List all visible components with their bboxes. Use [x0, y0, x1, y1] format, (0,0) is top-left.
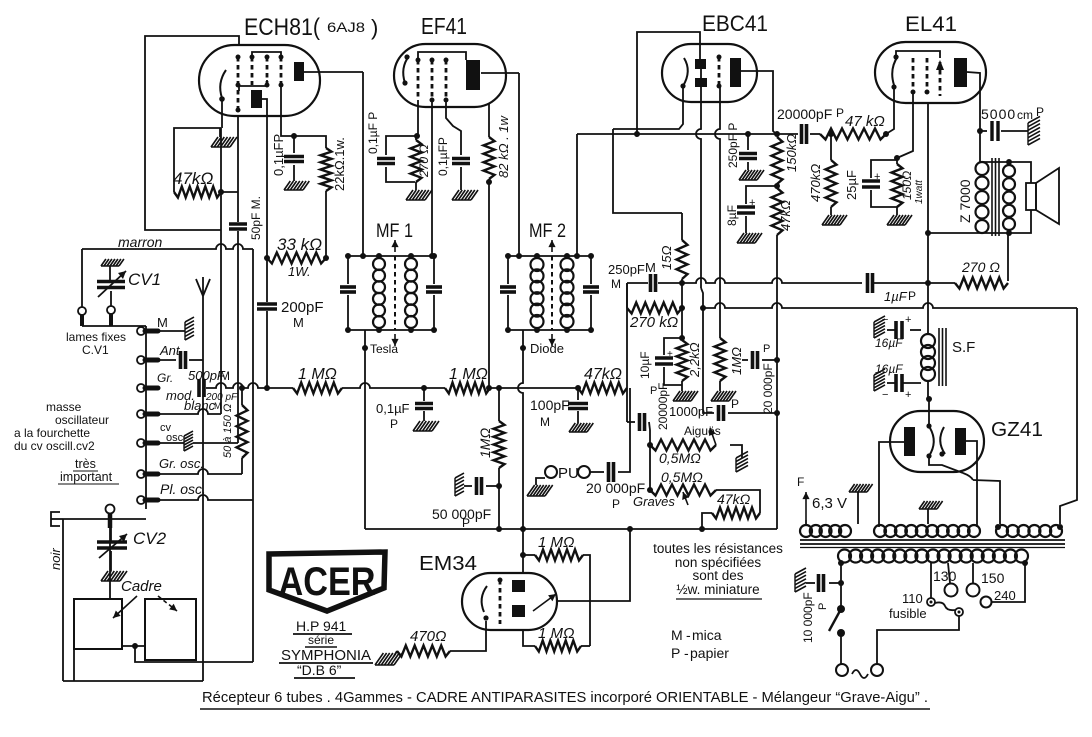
note F 6,3V: [797, 475, 847, 520]
resistor 50a150 ohm: [237, 385, 248, 474]
resistor 47k detector: [578, 383, 627, 394]
wire fusible link: [935, 602, 955, 610]
note 240 label: [994, 588, 1016, 603]
svg-text:M: M: [157, 315, 168, 330]
svg-text:F: F: [797, 475, 804, 489]
wire EF41 pin1: [414, 100, 420, 139]
wire rail B1 left: [627, 278, 862, 387]
svg-text:150kΩ: 150kΩ: [784, 134, 799, 172]
wire line 133: [577, 131, 798, 137]
tube EBC41 label: [702, 11, 768, 36]
capacitor 100pF M: [568, 385, 588, 423]
resistor 150k label: [784, 134, 799, 172]
svg-text:0,5MΩ: 0,5MΩ: [659, 450, 701, 466]
svg-text:oscillateur: oscillateur: [55, 413, 109, 427]
wire noir bottom: [63, 680, 203, 682]
note fusible label: [889, 606, 927, 621]
svg-text:série: série: [308, 633, 334, 647]
tube EM34 targets: [512, 580, 525, 617]
capacitor 250pFM: [651, 274, 656, 292]
ground OPU: [527, 478, 553, 496]
svg-text:100pF: 100pF: [530, 397, 570, 413]
capacitor 0,1uF P bus: [415, 388, 433, 421]
speaker: [1026, 168, 1059, 224]
wire bottom bus: [365, 526, 777, 532]
terminal post CV1 right: [107, 291, 115, 326]
svg-text:Gr.: Gr.: [157, 371, 173, 385]
svg-text:130: 130: [933, 568, 957, 584]
resistor 47k grid label: [845, 113, 885, 130]
capacitor 250pF P: [739, 131, 757, 170]
wire post to cadre: [109, 528, 111, 599]
wire lames fixes: [82, 325, 146, 327]
tube EL41 label: [905, 13, 957, 36]
capacitor Ant: [181, 351, 186, 369]
svg-text:M: M: [540, 415, 550, 429]
resistor 0,5M label 1: [659, 450, 701, 466]
tube GZ41 envelope: [890, 411, 984, 472]
resistor 2,2k label: [687, 342, 702, 378]
capacitor 25uF label: [844, 170, 859, 200]
svg-text:Récepteur 6 tubes . 4Gammes -: Récepteur 6 tubes . 4Gammes - CADRE ANTI…: [202, 690, 928, 706]
wire Diode label: [530, 341, 564, 356]
wire cathode bracket: [174, 128, 221, 192]
wire marron label: [118, 234, 163, 250]
capacitor 20000pF left label: [650, 383, 670, 430]
resistor 1M second: [445, 383, 492, 394]
terminal M: [137, 327, 158, 335]
svg-text:M: M: [611, 277, 621, 291]
transformer MF2 frame: [508, 256, 591, 330]
wire tap 150: [972, 563, 974, 583]
capacitor CV2: [97, 528, 127, 558]
capacitor MF2 right: [583, 287, 599, 292]
resistor 2,2k: [677, 340, 688, 381]
svg-text:1MΩ: 1MΩ: [729, 347, 744, 375]
terminal Ant: [137, 356, 158, 364]
svg-text:0,1µFP: 0,1µFP: [271, 134, 286, 176]
svg-text:1 MΩ: 1 MΩ: [449, 366, 488, 383]
svg-text:250pF: 250pF: [608, 262, 645, 277]
tube EM34 label: [419, 553, 477, 575]
capacitor 1uFP: [868, 273, 873, 293]
resistor 47k grid EL41: [810, 129, 886, 140]
note masse oscillateur: [14, 400, 109, 453]
ground 100pF M: [569, 423, 593, 432]
svg-text:Ant: Ant: [159, 343, 181, 358]
capacitor 1000pF: [703, 308, 777, 421]
note tres important: [58, 457, 119, 484]
resistor 33kOhm: [264, 253, 329, 264]
wire MF1 corners: [345, 253, 437, 333]
tube ECH81 lower grid: [236, 90, 241, 113]
wire v1: [220, 128, 222, 414]
capacitor 20000pF left: [627, 387, 650, 445]
resistor 150k vertical: [772, 137, 783, 184]
terminal Gr osc label: [159, 456, 204, 471]
capacitor 50000pF: [455, 473, 499, 496]
svg-text:8µF: 8µF: [725, 205, 739, 226]
resistor 470 ohm: [375, 621, 486, 665]
capacitor 500pF label: [188, 368, 230, 383]
resistor 470 ohm label: [410, 628, 446, 645]
resistor 150 ohm: [892, 158, 903, 215]
svg-text:0,1µFP: 0,1µFP: [436, 137, 450, 176]
svg-text:masse: masse: [46, 400, 82, 414]
transformer Z7000 core: [992, 158, 999, 236]
svg-text:P: P: [763, 343, 770, 355]
wire GZ41 plate2 out: [965, 441, 977, 527]
wire M line: [158, 330, 185, 332]
ground 5000cm hatch: [1028, 116, 1040, 145]
resistor 47kOhm grid: [174, 187, 221, 198]
svg-text:lames fixes: lames fixes: [66, 330, 126, 344]
capacitor 100pF M label: [530, 397, 570, 429]
svg-text:6AJ8: 6AJ8: [327, 19, 365, 35]
svg-text:0,1µF: 0,1µF: [376, 401, 410, 416]
resistor 0,5M label 2: [661, 469, 703, 485]
svg-text:+: +: [905, 314, 911, 326]
capacitor 16uF top: [882, 314, 921, 339]
wire Tesla label: [370, 342, 398, 356]
ground 16uF top: [874, 316, 885, 338]
wire 240 to HV right: [991, 563, 1025, 602]
svg-text:GZ41: GZ41: [991, 419, 1043, 441]
svg-text:P: P: [731, 397, 739, 411]
resistor 82k label: [496, 114, 511, 178]
capacitor 200pF M label: [281, 299, 324, 330]
wire 150k47k chain down: [774, 235, 780, 529]
svg-text:270 Ω: 270 Ω: [417, 145, 431, 178]
terminal 240: [981, 597, 992, 608]
terminal Gr osc: [137, 470, 158, 478]
svg-text:50 à 150 Ω: 50 à 150 Ω: [222, 404, 234, 458]
ground heater1: [849, 484, 873, 524]
note DB6: [294, 662, 355, 678]
plug symbol: [51, 512, 63, 526]
coil heater GZ41 stem: [805, 520, 807, 524]
svg-text:16µF: 16µF: [875, 362, 903, 376]
svg-text:P: P: [908, 289, 916, 303]
resistor 22kOhm label: [332, 137, 347, 191]
wire v3 long: [252, 249, 254, 662]
wire EM34 grid feed: [522, 529, 524, 573]
capacitor 16uF bottom: [882, 374, 921, 401]
tube EL41 envelope: [875, 42, 986, 103]
tube ECH81 label: [244, 14, 378, 41]
wire cadre to v3: [135, 646, 253, 662]
resistor 47k graves: [712, 508, 760, 519]
svg-text:82 kΩ . 1w: 82 kΩ . 1w: [496, 114, 511, 178]
svg-text:150: 150: [981, 570, 1005, 586]
capacitor CV1: [97, 271, 126, 297]
wire cv osc to v2: [193, 442, 238, 444]
wire Diode drop: [518, 330, 526, 529]
resistor 33kOhm label: [277, 235, 322, 279]
svg-text:Pl. osc.: Pl. osc.: [160, 481, 206, 497]
wire pin3 stub: [266, 108, 268, 136]
capacitor 1uFP label: [884, 289, 916, 304]
svg-text:470Ω: 470Ω: [410, 628, 446, 645]
svg-text:1 MΩ: 1 MΩ: [538, 534, 574, 551]
wire Ant line: [158, 359, 176, 361]
svg-text:47kΩ: 47kΩ: [584, 366, 622, 383]
tube EF41 plate: [466, 60, 480, 90]
svg-text:240: 240: [994, 588, 1016, 603]
svg-text:1W.: 1W.: [288, 264, 311, 279]
wire aigu gnd: [730, 445, 742, 458]
resistor 270 ohm: [411, 136, 422, 190]
coil SF choke: [921, 334, 935, 381]
svg-text:PU: PU: [558, 465, 579, 482]
coil secondary HV: [838, 550, 1028, 567]
svg-text:papier: papier: [690, 645, 729, 661]
tube ECH81 inner wires: [239, 52, 281, 91]
ground 250pF P: [739, 170, 764, 180]
wire plug to rail: [63, 518, 146, 520]
capacitor 0,1uFP EF1 label: [366, 112, 380, 154]
resistor 470k: [826, 134, 837, 215]
tube EL41 grid pins: [911, 58, 930, 95]
tube EL41 signal grid: [936, 60, 944, 96]
potentiometer Aigues label: [684, 424, 721, 438]
capacitor 5000cm: [992, 121, 998, 141]
terminal post CV2: [106, 505, 115, 529]
resistor 47k graves label: [717, 491, 751, 507]
wire rail AVC: [703, 303, 1077, 308]
wire 82k down: [488, 179, 490, 388]
terminal post CV1 left: [78, 307, 86, 326]
ground cv osc hatch: [184, 431, 193, 451]
capacitor MF1 right: [426, 287, 442, 292]
terminal OPU right: [578, 466, 590, 478]
tube GZ41 plate 2: [955, 428, 966, 455]
wire 15-2k2 node: [679, 279, 685, 340]
svg-text:Cadre: Cadre: [121, 578, 162, 595]
ground heater2 tap: [919, 501, 943, 524]
tube EM34 cathode: [482, 586, 489, 621]
wire tap 130: [948, 563, 950, 583]
svg-text:+: +: [905, 389, 911, 401]
capacitor 20000pF right label: [761, 343, 775, 414]
svg-text:200pF: 200pF: [281, 299, 324, 316]
wire 5000cm line: [977, 128, 987, 134]
note resistances: [653, 541, 783, 599]
caption: [200, 690, 930, 709]
capacitor 20000pF PU: [609, 462, 614, 482]
wire 47k graves left: [699, 513, 712, 532]
ground 0,1uFP EF2: [452, 190, 478, 200]
wire rail B2: [613, 129, 682, 213]
coil MF1 primary: [373, 253, 385, 333]
resistor 1M tone label: [729, 347, 744, 375]
svg-text:MF 1: MF 1: [376, 221, 413, 242]
ground aigu: [736, 451, 748, 472]
capacitor 50pF label: [249, 196, 263, 240]
svg-text:5000: 5000: [981, 106, 1016, 122]
wire PU cap up: [618, 388, 630, 472]
svg-text:33 kΩ: 33 kΩ: [277, 235, 322, 254]
wire cadre junction: [122, 643, 145, 649]
tube EF41 grid pins: [416, 58, 449, 103]
resistor 1M EM34 bottom: [523, 630, 590, 652]
wire PU to cap: [590, 471, 604, 473]
potentiometer Graves label: [633, 494, 675, 509]
svg-text:CV2: CV2: [133, 529, 167, 548]
ground 470k: [822, 215, 847, 225]
capacitor MF1 left: [340, 287, 356, 292]
wire ECH81 plate to MF1: [304, 71, 363, 73]
svg-text:Z 7000: Z 7000: [957, 179, 973, 223]
tube EBC41 diode plates: [695, 59, 707, 87]
wire Z7000 to 270: [1007, 233, 1009, 281]
resistor 1M EM34 bottom label: [538, 625, 574, 642]
coil MF2 secondary: [561, 253, 574, 333]
coil MF1 secondary: [405, 253, 417, 333]
svg-text:15Ω: 15Ω: [659, 246, 674, 270]
svg-text:Diode: Diode: [530, 341, 564, 356]
svg-text:noir: noir: [48, 548, 63, 570]
wire B1 to SF: [925, 103, 931, 334]
capacitor 0,1uF ECH: [284, 136, 304, 181]
capacitor 50pF: [229, 224, 247, 229]
wire 5000cm to gnd: [1001, 130, 1028, 132]
wire Gr osc line: [158, 469, 242, 474]
note 130 label: [933, 568, 957, 584]
svg-text:20 000pF: 20 000pF: [761, 363, 775, 414]
wire AVC right end: [1060, 308, 1077, 524]
wire speaker bottom: [1006, 210, 1031, 236]
note M mica: [671, 627, 722, 643]
terminal Gr label: [157, 371, 173, 385]
coil SF core: [939, 328, 946, 386]
svg-text:EM34: EM34: [419, 553, 477, 575]
wire Pl osc line: [158, 495, 253, 500]
note P papier: [671, 645, 729, 661]
cadre arrow 2: [158, 596, 177, 611]
svg-text:MF 2: MF 2: [529, 221, 566, 242]
wire EBC41 grid top: [637, 32, 700, 134]
svg-text:P: P: [817, 603, 829, 610]
svg-text:47 kΩ: 47 kΩ: [845, 113, 885, 130]
coil SF label: [952, 339, 975, 356]
wire 8uF bracket: [746, 186, 777, 204]
svg-text:1µF: 1µF: [884, 289, 908, 304]
ground 8uF: [737, 233, 762, 243]
tube ECH81 cathode: [219, 70, 226, 102]
svg-text:16µF: 16µF: [875, 336, 903, 350]
resistor 82k: [484, 103, 495, 185]
cadre frame right: [145, 599, 196, 660]
svg-text:0,1µF P: 0,1µF P: [366, 112, 380, 154]
cadre frame left: [74, 599, 122, 649]
terminal Pl osc: [137, 496, 158, 504]
svg-text:P: P: [390, 417, 398, 431]
tube EL41 cathode: [891, 51, 940, 90]
wire EL41 plate out: [967, 72, 980, 162]
coil Z7000 secondary: [1003, 165, 1015, 230]
wire Z7000 bottom rail: [928, 232, 1009, 234]
svg-text:20000pF: 20000pF: [656, 383, 670, 430]
tube ECH81 plate (hexode): [251, 90, 267, 108]
wire EBC41 pin2 down: [715, 87, 720, 338]
coil heater row1: [800, 525, 851, 537]
svg-text:EL41: EL41: [905, 13, 957, 36]
svg-text:C.V1: C.V1: [82, 343, 109, 357]
svg-text:+: +: [874, 171, 880, 183]
transformer Z7000 label: [957, 179, 973, 223]
svg-text:1000pF: 1000pF: [669, 404, 713, 419]
wire lames label: [66, 330, 126, 357]
svg-text:+: +: [667, 349, 673, 360]
resistor 22kOhm: [321, 148, 332, 191]
capacitor 10uF bracket: [664, 335, 685, 355]
logo ACER: [269, 552, 385, 611]
antenna symbol: [196, 277, 210, 296]
potentiometer Graves: [650, 485, 716, 506]
transformer core: [800, 540, 1065, 548]
wire EM34 target feed: [557, 529, 630, 601]
wire EL41 cathode down: [894, 92, 913, 161]
svg-text:0,5MΩ: 0,5MΩ: [661, 469, 703, 485]
terminal fusible 2: [955, 608, 963, 616]
svg-text:20000pF: 20000pF: [777, 106, 832, 122]
svg-text:M: M: [220, 369, 230, 383]
svg-text:1watt: 1watt: [914, 179, 925, 204]
ground ECH81 cathode: [211, 128, 237, 147]
resistor 1M second label: [449, 366, 488, 383]
svg-text:CV1: CV1: [128, 270, 161, 289]
svg-text:250pF P: 250pF P: [726, 123, 740, 168]
wire aigu left down: [647, 445, 653, 493]
note 150 label: [981, 570, 1005, 586]
svg-text:+: +: [749, 197, 755, 209]
svg-text:2,2kΩ: 2,2kΩ: [687, 342, 702, 378]
wire 22k to 33k: [325, 191, 327, 258]
wire MF2 corners: [505, 253, 594, 333]
capacitor 0,1uFP ECH label: [271, 134, 286, 176]
wire bus to 47k: [490, 387, 578, 389]
svg-text:P: P: [836, 106, 844, 120]
wire v4: [266, 136, 268, 388]
svg-text:EF41: EF41: [421, 13, 467, 39]
svg-text:cm: cm: [1017, 108, 1033, 122]
wire pin4 stub: [281, 85, 294, 136]
tube EF41 envelope: [394, 44, 506, 107]
wire EF41 plate to MF2: [516, 73, 522, 259]
resistor 1M first label: [298, 366, 337, 383]
resistor 47k vertical: [772, 183, 783, 235]
svg-text:Aiguës: Aiguës: [684, 424, 721, 438]
wire rail B1 right: [874, 282, 955, 284]
svg-text:P: P: [671, 645, 680, 661]
tube EF41 cathode: [402, 54, 409, 85]
svg-text:47kΩ: 47kΩ: [778, 200, 793, 231]
wire cadre bottom: [73, 649, 75, 681]
resistor 47kOhm label: [173, 169, 213, 188]
wire noir: [62, 519, 64, 681]
tube ECH81 envelope: [199, 45, 320, 116]
svg-text:-: -: [686, 627, 691, 643]
capacitor 8uF label: [725, 205, 739, 226]
tube ECH81 plate (triode): [294, 62, 304, 81]
svg-text:50pF M.: 50pF M.: [249, 196, 263, 240]
ground 0,1uF ECH: [284, 181, 309, 190]
ground 16uF bottom: [874, 369, 885, 391]
wire HV left down: [838, 563, 844, 609]
capacitor 10000pF: [806, 574, 841, 592]
terminal OPU left: [545, 466, 557, 478]
